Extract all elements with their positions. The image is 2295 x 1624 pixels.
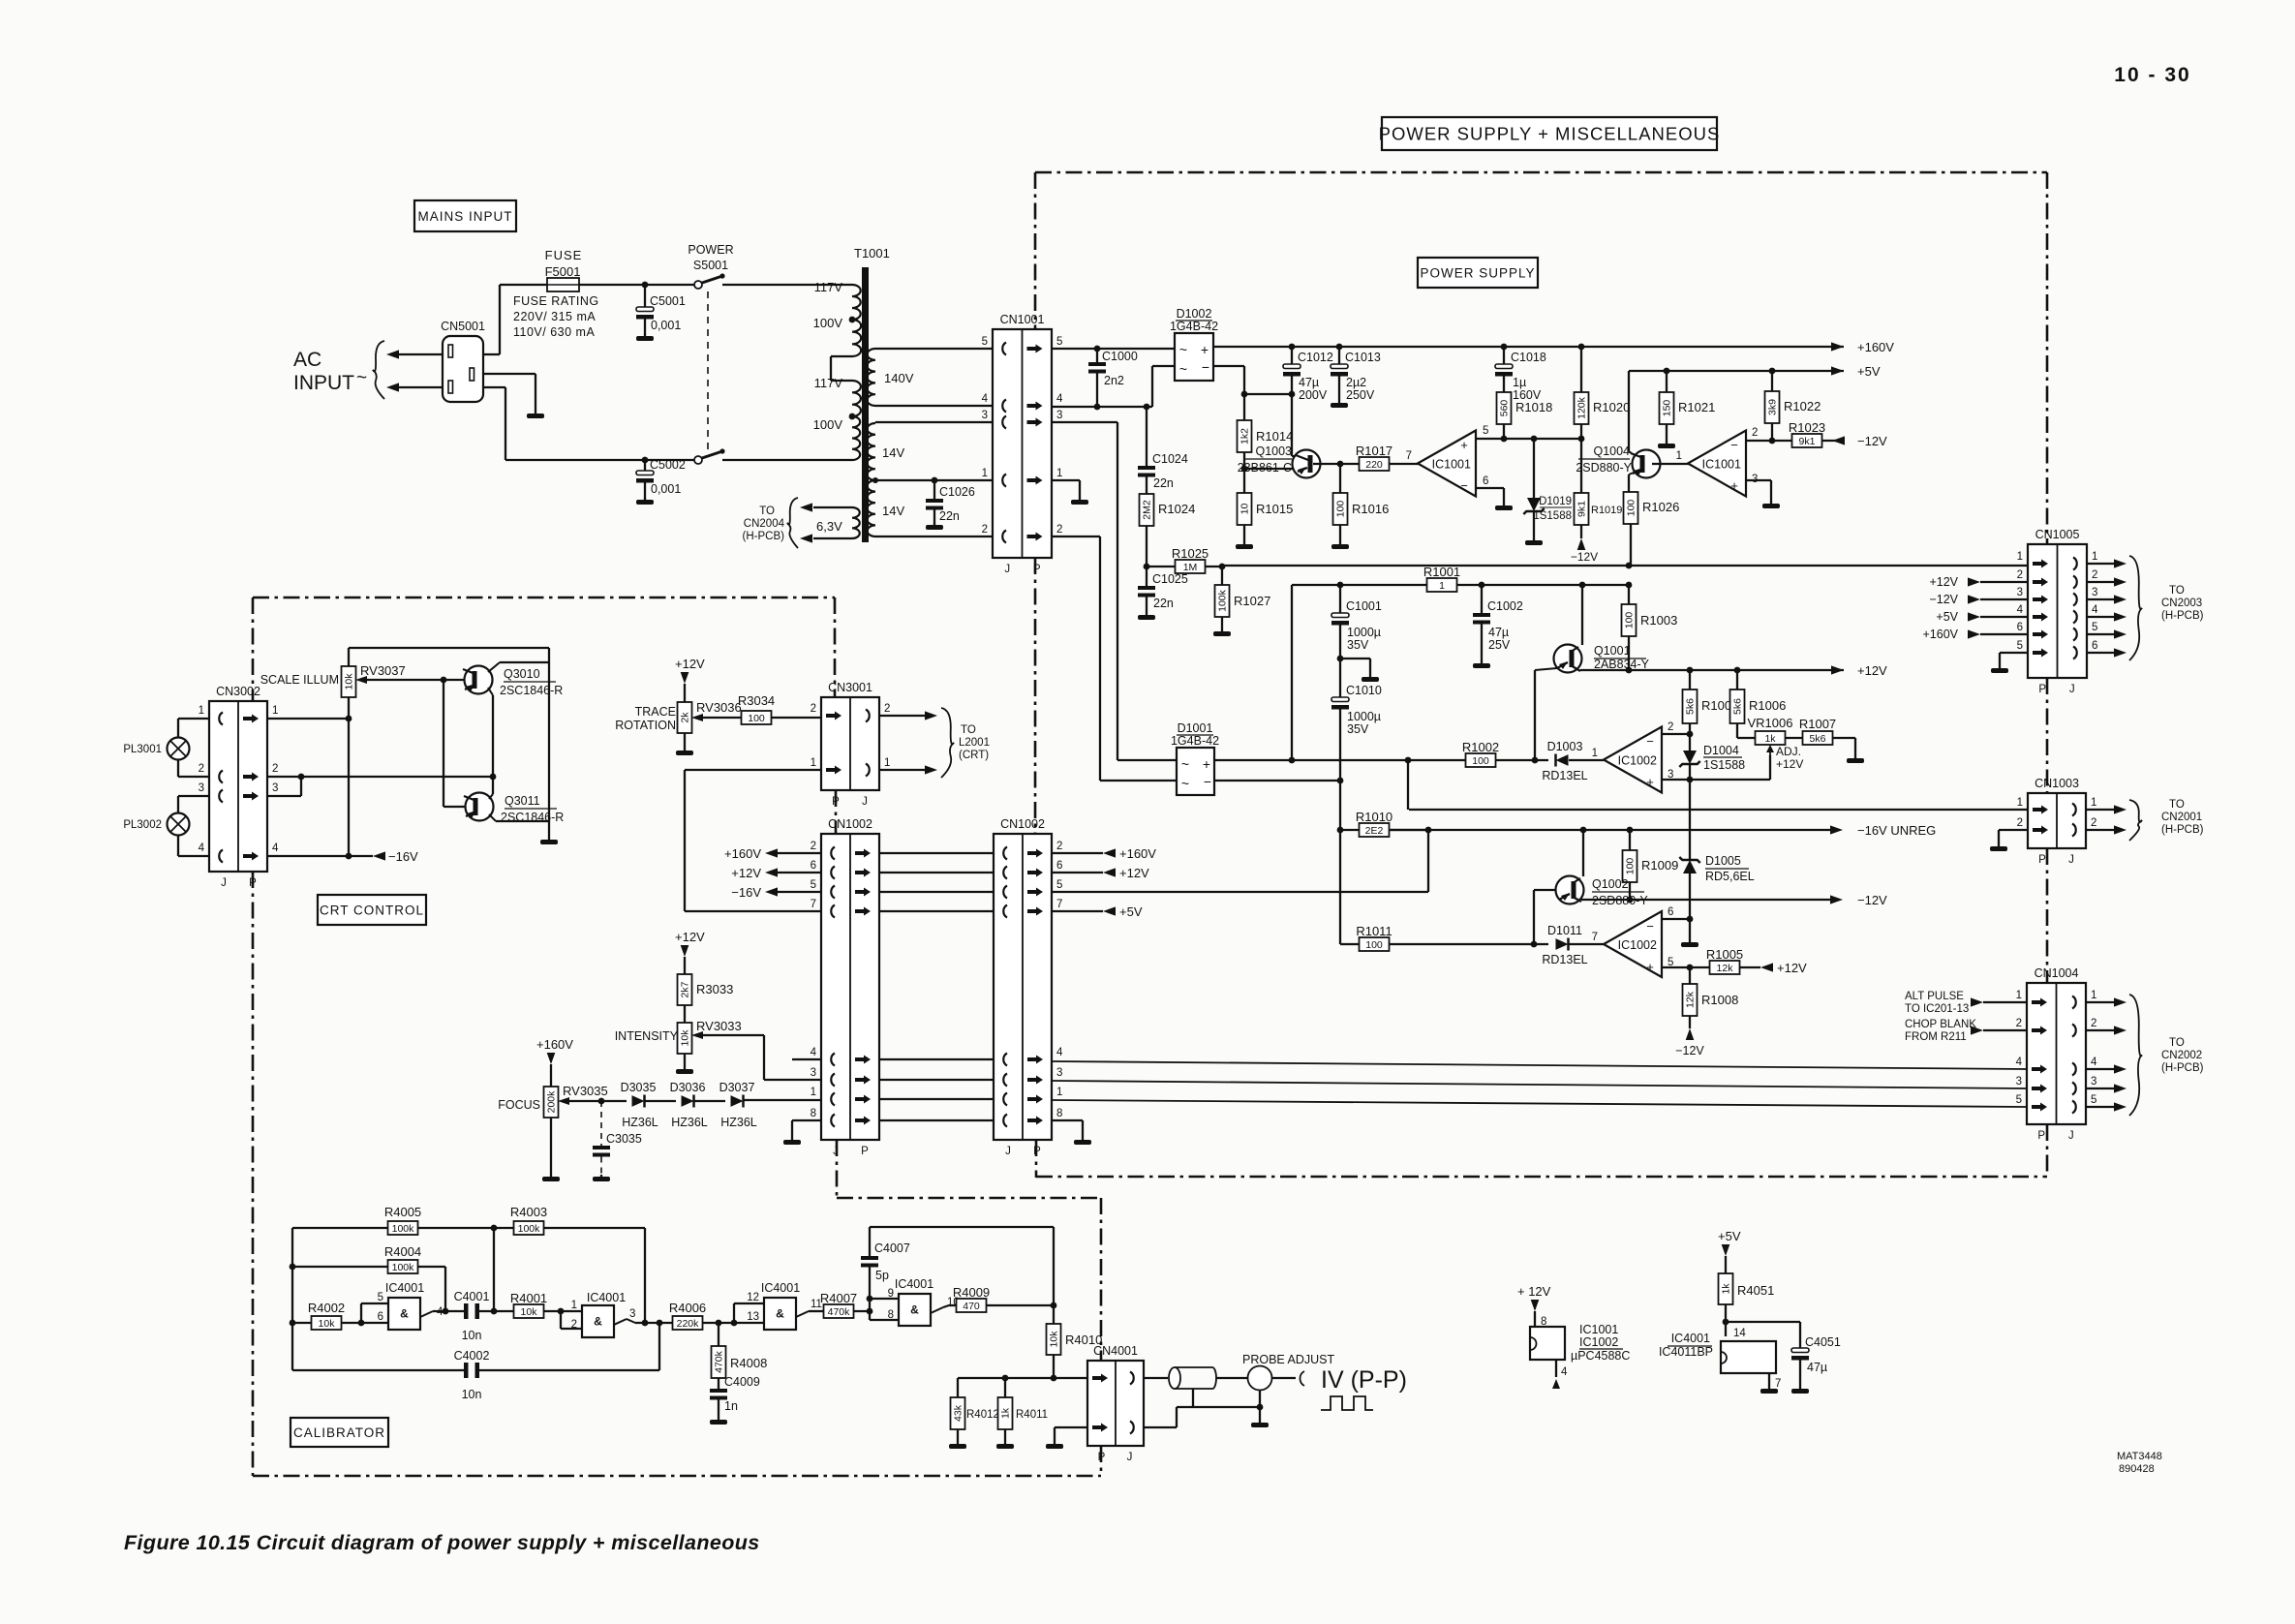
wire IC1001b output to Q1004 base bbox=[1652, 463, 1689, 465]
resistor R1025 bbox=[1147, 566, 1176, 567]
capacitor C1024 bbox=[1146, 407, 1147, 466]
svg-text:100: 100 bbox=[1626, 500, 1637, 517]
svg-text:5: 5 bbox=[2017, 640, 2023, 652]
diode D1011 bbox=[1556, 938, 1569, 950]
capacitor C4051 bbox=[1791, 1348, 1809, 1353]
wire Q3010 collector bbox=[488, 662, 500, 672]
svg-text:1S1588: 1S1588 bbox=[1533, 510, 1572, 522]
ground at R1007 bbox=[1847, 756, 1864, 763]
wires 6.3V to CN2004 bbox=[813, 506, 852, 508]
ground below CN5001 bbox=[527, 412, 544, 418]
svg-text:−16V UNREG: −16V UNREG bbox=[1857, 823, 1936, 838]
coax cable symbol bbox=[1169, 1367, 1180, 1389]
svg-text:POWER SUPPLY: POWER SUPPLY bbox=[1420, 265, 1535, 280]
svg-text:12k: 12k bbox=[1717, 963, 1734, 974]
svg-text:4: 4 bbox=[2017, 604, 2024, 616]
resistor R1016 bbox=[1339, 464, 1341, 493]
+160V rail bbox=[1213, 346, 1844, 348]
svg-text:110V/ 630 mA: 110V/ 630 mA bbox=[513, 325, 595, 339]
svg-text:1G4B-42: 1G4B-42 bbox=[1171, 734, 1219, 748]
wire CN3002 pin4 row bbox=[267, 855, 373, 857]
primary series link bbox=[831, 355, 852, 357]
connector CN1004 bbox=[2027, 983, 2086, 1124]
resistor R4004 bbox=[292, 1266, 388, 1268]
svg-text:R1027: R1027 bbox=[1234, 594, 1270, 608]
svg-text:RD13EL: RD13EL bbox=[1542, 769, 1587, 782]
wire CN3002 pin1 to RV3037 bbox=[267, 718, 349, 720]
supply arrow -12V below R1008 bbox=[1686, 1028, 1695, 1040]
wire gate3 output bbox=[809, 1310, 823, 1312]
switch S5001 upper contact bbox=[694, 281, 702, 289]
long wires CN1002 to CN1004 bbox=[1052, 1061, 2027, 1069]
wire CN1001 pin5 to D1002 bbox=[1052, 348, 1175, 350]
svg-text:10k: 10k bbox=[521, 1306, 538, 1318]
svg-text:7: 7 bbox=[811, 899, 816, 910]
wire 14V top to CN1001 pin3 bbox=[875, 421, 993, 423]
capacitor C4009 bbox=[710, 1389, 727, 1393]
svg-text:IC4001: IC4001 bbox=[1671, 1332, 1710, 1345]
svg-text:~: ~ bbox=[1181, 756, 1189, 772]
svg-text:C1018: C1018 bbox=[1511, 351, 1546, 364]
svg-text:−12V: −12V bbox=[1571, 550, 1598, 564]
svg-text:R1014: R1014 bbox=[1256, 429, 1293, 444]
wire loop A mid vertical bbox=[493, 1228, 495, 1311]
svg-text:3: 3 bbox=[1056, 410, 1062, 421]
svg-text:220: 220 bbox=[1365, 459, 1383, 471]
svg-text:3: 3 bbox=[199, 782, 204, 794]
wire CN4001 to probe jack bbox=[1144, 1377, 1168, 1379]
wire D1001 minus output bbox=[1214, 780, 1340, 781]
wire CN1003 pin2 ground bbox=[1999, 829, 2028, 831]
svg-text:S5001: S5001 bbox=[693, 259, 728, 272]
wire calibrator output row bbox=[958, 1377, 1087, 1379]
wires CN1005 to CN2003 bbox=[2087, 563, 2114, 565]
svg-text:5p: 5p bbox=[875, 1269, 889, 1282]
svg-text:J: J bbox=[833, 1146, 839, 1157]
svg-text:47µ: 47µ bbox=[1807, 1361, 1827, 1374]
svg-text:4: 4 bbox=[1056, 1047, 1063, 1058]
node R1027 top bbox=[1219, 564, 1226, 570]
ground below RV3033 bbox=[676, 1067, 693, 1074]
svg-text:−: − bbox=[1730, 438, 1738, 452]
resistor R3033 bbox=[678, 974, 692, 1005]
ground below R4011 bbox=[996, 1442, 1014, 1449]
wire CN5001 earth to ground bbox=[483, 373, 535, 375]
svg-text:22n: 22n bbox=[939, 509, 960, 523]
svg-text:2: 2 bbox=[1668, 721, 1673, 733]
svg-text:1k2: 1k2 bbox=[1239, 428, 1251, 444]
svg-text:Q1001: Q1001 bbox=[1594, 644, 1631, 658]
ground below C1025 bbox=[1138, 613, 1155, 620]
svg-text:F5001: F5001 bbox=[545, 264, 581, 279]
svg-text:+12V: +12V bbox=[1119, 866, 1149, 880]
svg-text:POWER: POWER bbox=[688, 243, 733, 257]
svg-text:CN1004: CN1004 bbox=[2035, 966, 2079, 980]
svg-text:4: 4 bbox=[811, 1047, 817, 1058]
svg-text:6: 6 bbox=[2017, 622, 2023, 633]
resistor R1010 bbox=[1337, 827, 1344, 834]
svg-text:3: 3 bbox=[2017, 587, 2023, 598]
svg-text:CRT CONTROL: CRT CONTROL bbox=[320, 903, 424, 917]
svg-text:1: 1 bbox=[1439, 580, 1445, 592]
ground below C4051 bbox=[1791, 1387, 1809, 1394]
+5V rail bbox=[1629, 370, 1844, 372]
capacitor C5002 bbox=[644, 460, 646, 471]
primary winding 117V lower bbox=[852, 381, 861, 416]
svg-text:13: 13 bbox=[747, 1311, 759, 1323]
svg-text:+: + bbox=[1730, 478, 1738, 493]
capacitor C1012 bbox=[1291, 347, 1293, 364]
secondary winding 14V lower bbox=[868, 480, 875, 536]
capacitor C3035 (dashed stray) bbox=[600, 1101, 602, 1146]
svg-text:CN2001: CN2001 bbox=[2161, 812, 2202, 823]
IC block uPC4588C bbox=[1530, 1327, 1565, 1360]
svg-text:4: 4 bbox=[982, 393, 989, 405]
wires PL3001 bbox=[177, 719, 179, 738]
svg-text:+12V: +12V bbox=[1857, 663, 1887, 678]
svg-text:+12V: +12V bbox=[1776, 757, 1803, 771]
svg-text:P: P bbox=[2038, 854, 2046, 866]
wiper wire RV3037 bbox=[355, 676, 367, 684]
svg-text:220k: 220k bbox=[677, 1318, 700, 1330]
svg-text:T1001: T1001 bbox=[854, 246, 890, 260]
fuse F5001 bbox=[500, 284, 547, 286]
primary winding 117V bbox=[852, 285, 861, 320]
svg-text:100V: 100V bbox=[813, 417, 843, 432]
svg-text:L2001: L2001 bbox=[959, 737, 990, 749]
node fuse-C5001 bbox=[642, 282, 649, 289]
resistor R1003 bbox=[1628, 585, 1630, 604]
wire CN3001 pin1 to CN1002 pin7 bbox=[685, 769, 821, 771]
svg-text:+: + bbox=[1460, 438, 1468, 452]
wire CN4001 pin2 ground bbox=[1055, 1426, 1087, 1428]
wire R1010 to rail bbox=[1427, 830, 1429, 892]
svg-text:TO: TO bbox=[961, 724, 976, 736]
svg-text:P: P bbox=[2037, 1130, 2045, 1142]
svg-text:R1024: R1024 bbox=[1158, 502, 1195, 516]
svg-text:100: 100 bbox=[748, 713, 765, 724]
svg-text:C1013: C1013 bbox=[1345, 351, 1381, 364]
svg-text:&: & bbox=[776, 1307, 784, 1321]
diode D1003 bbox=[1556, 754, 1569, 766]
svg-text:+: + bbox=[1646, 960, 1654, 974]
svg-text:R1016: R1016 bbox=[1352, 502, 1389, 516]
transistor Q3010 bbox=[444, 679, 465, 681]
svg-text:1: 1 bbox=[2016, 990, 2022, 1001]
capacitor C1002 bbox=[1481, 585, 1483, 613]
svg-text:FOCUS: FOCUS bbox=[498, 1098, 540, 1112]
svg-text:FUSE RATING: FUSE RATING bbox=[513, 294, 599, 308]
svg-text:4: 4 bbox=[272, 843, 279, 854]
wire gate1 output bbox=[433, 1310, 466, 1312]
svg-text:R1026: R1026 bbox=[1642, 500, 1679, 514]
wire gate3 pin12 loop bbox=[733, 1303, 735, 1323]
wire CN1005 pin5 ground bbox=[2000, 652, 2028, 654]
capacitor C1000 bbox=[1096, 349, 1098, 362]
svg-text:&: & bbox=[594, 1315, 602, 1329]
capacitor C4007 bbox=[869, 1227, 871, 1256]
svg-text:R1006: R1006 bbox=[1749, 698, 1786, 713]
svg-text:IV (P-P): IV (P-P) bbox=[1321, 1366, 1407, 1394]
ground below R1027 bbox=[1213, 629, 1231, 636]
svg-text:+160V: +160V bbox=[1119, 846, 1156, 861]
wire gate4 input loop bbox=[869, 1299, 871, 1320]
svg-text:6: 6 bbox=[1668, 906, 1673, 918]
svg-text:CN1002: CN1002 bbox=[828, 817, 872, 831]
resistor R1027 bbox=[1221, 567, 1223, 585]
diode D3035 bbox=[632, 1095, 645, 1107]
coax shield ground bbox=[1192, 1389, 1194, 1407]
wire rail y785 bbox=[1292, 759, 1466, 761]
svg-text:C4007: C4007 bbox=[874, 1241, 910, 1255]
svg-text:IC1002: IC1002 bbox=[1618, 754, 1657, 768]
svg-text:Figure 10.15 Circuit diagram o: Figure 10.15 Circuit diagram of power su… bbox=[124, 1531, 760, 1554]
svg-text:100V: 100V bbox=[813, 316, 843, 330]
ground Q3010/Q3011 bbox=[540, 838, 558, 844]
svg-text:CN2002: CN2002 bbox=[2161, 1050, 2202, 1061]
svg-text:CN4001: CN4001 bbox=[1093, 1344, 1138, 1358]
transistor Q1004 bbox=[1633, 450, 1661, 478]
ground CN1001 pin1 bbox=[1071, 498, 1088, 505]
svg-text:TO: TO bbox=[2169, 799, 2185, 811]
diode D3036 bbox=[682, 1095, 694, 1107]
svg-text:4: 4 bbox=[1561, 1366, 1568, 1378]
svg-text:4: 4 bbox=[2016, 1057, 2023, 1068]
capacitor C1026 bbox=[933, 480, 935, 499]
rail -16V unreg bbox=[1389, 829, 1830, 831]
svg-text:C4001: C4001 bbox=[454, 1290, 490, 1303]
wire CN1002 left pin8 ground bbox=[792, 1119, 821, 1121]
svg-text:14: 14 bbox=[1733, 1328, 1746, 1339]
wires CN1004 to CN2002 bbox=[2086, 1001, 2114, 1003]
svg-text:ADJ.: ADJ. bbox=[1776, 745, 1801, 758]
svg-text:22n: 22n bbox=[1153, 476, 1174, 490]
title box POWER SUPPLY + MISCELLANEOUS bbox=[1382, 117, 1717, 150]
svg-text:0,001: 0,001 bbox=[651, 482, 681, 496]
svg-text:−16V: −16V bbox=[388, 849, 418, 864]
wire Q1004 collector bbox=[1628, 371, 1630, 451]
svg-text:RV3035: RV3035 bbox=[563, 1084, 608, 1098]
svg-text:+160V: +160V bbox=[1923, 628, 1959, 641]
wire D1001 plus output bbox=[1214, 759, 1292, 761]
svg-text:IC1001: IC1001 bbox=[1432, 458, 1471, 472]
svg-text:1: 1 bbox=[2017, 551, 2023, 563]
svg-text:CALIBRATOR: CALIBRATOR bbox=[293, 1425, 385, 1440]
svg-text:5: 5 bbox=[2091, 1094, 2096, 1106]
svg-text:100: 100 bbox=[1624, 612, 1636, 629]
svg-text:TO: TO bbox=[759, 506, 775, 517]
svg-text:5k6: 5k6 bbox=[1810, 733, 1826, 745]
svg-text:D1002: D1002 bbox=[1177, 307, 1212, 321]
svg-text:1: 1 bbox=[571, 1300, 577, 1311]
svg-text:35V: 35V bbox=[1347, 722, 1369, 736]
svg-text:2SC1846-R: 2SC1846-R bbox=[500, 684, 563, 697]
rail to CN1005 pin1 bbox=[1222, 565, 2028, 567]
capacitor C1010 bbox=[1339, 659, 1341, 697]
svg-text:+160V: +160V bbox=[1857, 340, 1894, 354]
resistor R1019 bbox=[1580, 439, 1582, 493]
wire C1010 chain down bbox=[1339, 781, 1341, 830]
svg-text:J: J bbox=[2069, 684, 2075, 695]
svg-text:POWER SUPPLY + MISCELLANEOUS: POWER SUPPLY + MISCELLANEOUS bbox=[1379, 124, 1721, 144]
svg-text:Q1003: Q1003 bbox=[1255, 444, 1292, 458]
probe adjust jack bbox=[1248, 1366, 1272, 1391]
svg-text:140V: 140V bbox=[884, 371, 914, 385]
svg-text:2: 2 bbox=[571, 1319, 577, 1331]
node lower line C5002 bbox=[642, 457, 649, 464]
ground below C4009 bbox=[710, 1418, 727, 1425]
svg-text:14V: 14V bbox=[882, 445, 904, 460]
resistor R4002 bbox=[292, 1322, 313, 1324]
rail from CN1002 pin5 bbox=[1052, 891, 1428, 893]
rail to CN1003 pin1 bbox=[1409, 809, 2028, 811]
svg-text:+ 12V: + 12V bbox=[1517, 1284, 1551, 1299]
svg-text:8: 8 bbox=[1056, 1108, 1062, 1119]
svg-text:10 - 30: 10 - 30 bbox=[2114, 64, 2190, 86]
ground below RV3035 bbox=[542, 1175, 560, 1181]
svg-text:J: J bbox=[1127, 1452, 1133, 1463]
svg-text:8: 8 bbox=[888, 1309, 894, 1321]
svg-text:RV3037: RV3037 bbox=[360, 663, 406, 678]
svg-text:+: + bbox=[1203, 756, 1210, 772]
wires CN3001 to L2001 bbox=[879, 715, 925, 717]
svg-text:4: 4 bbox=[2091, 1057, 2097, 1068]
svg-text:0,001: 0,001 bbox=[651, 319, 681, 332]
svg-text:47µ: 47µ bbox=[1299, 376, 1319, 389]
svg-text:Q3011: Q3011 bbox=[505, 794, 540, 808]
svg-text:R4008: R4008 bbox=[730, 1356, 767, 1370]
svg-text:1: 1 bbox=[1592, 748, 1598, 759]
svg-text:C5001: C5001 bbox=[650, 294, 686, 308]
svg-text:5: 5 bbox=[982, 336, 988, 348]
svg-text:2: 2 bbox=[2017, 569, 2023, 581]
svg-text:~: ~ bbox=[1181, 776, 1189, 791]
svg-text:R4001: R4001 bbox=[510, 1291, 547, 1305]
svg-text:7: 7 bbox=[1056, 899, 1062, 910]
svg-text:1: 1 bbox=[1056, 468, 1062, 479]
power supply module border (dash-dot) bbox=[1035, 171, 2047, 174]
resistor R4051 bbox=[1719, 1273, 1733, 1304]
svg-text:P: P bbox=[249, 877, 257, 889]
primary winding 100V lower bbox=[852, 416, 860, 460]
ground below R1016 bbox=[1331, 542, 1349, 549]
svg-text:R1025: R1025 bbox=[1172, 546, 1209, 561]
svg-text:+12V: +12V bbox=[1777, 961, 1807, 975]
svg-text:2: 2 bbox=[2016, 1018, 2022, 1029]
svg-text:IC4011BP: IC4011BP bbox=[1659, 1345, 1713, 1359]
svg-text:100k: 100k bbox=[1217, 589, 1229, 612]
ground below R1015 bbox=[1236, 542, 1253, 549]
connector CN1005 bbox=[2028, 544, 2087, 678]
label box POWER SUPPLY bbox=[1418, 258, 1538, 288]
svg-text:2k7: 2k7 bbox=[680, 981, 691, 997]
svg-text:200V: 200V bbox=[1299, 388, 1328, 402]
connector CN1002 right bbox=[994, 834, 1052, 1140]
svg-text:−12V: −12V bbox=[1675, 1044, 1704, 1057]
wire 14V centre tap to CN1001 pin1 bbox=[875, 479, 993, 481]
wire junction down to CN1003 rail bbox=[1407, 760, 1409, 810]
wires between CN1002 connectors bbox=[879, 852, 994, 854]
svg-text:R1017: R1017 bbox=[1356, 444, 1392, 458]
svg-text:2SD880-Y: 2SD880-Y bbox=[1576, 461, 1632, 475]
svg-text:43k: 43k bbox=[953, 1404, 964, 1422]
svg-text:3: 3 bbox=[629, 1308, 635, 1320]
wire CN5001 bottom to lower mains line bbox=[483, 386, 505, 388]
svg-text:C1026: C1026 bbox=[939, 485, 975, 499]
svg-text:IC4001: IC4001 bbox=[587, 1291, 626, 1304]
winding 6.3V bbox=[852, 507, 860, 538]
svg-text:+12V: +12V bbox=[675, 657, 705, 671]
svg-text:D1005: D1005 bbox=[1705, 854, 1741, 868]
CRT control / calibrator module border (dash-dot) bbox=[253, 597, 835, 599]
capacitor C1013 bbox=[1338, 347, 1340, 364]
svg-text:2: 2 bbox=[1056, 841, 1062, 852]
ground below R4012 bbox=[949, 1442, 966, 1449]
wire RV3033 to CN1002 pin3 bbox=[764, 1079, 821, 1081]
svg-text:1: 1 bbox=[199, 705, 204, 717]
svg-text:9: 9 bbox=[888, 1288, 894, 1300]
svg-text:1000µ: 1000µ bbox=[1347, 626, 1381, 639]
wire RV3037 top loop bbox=[349, 647, 549, 649]
svg-text:100: 100 bbox=[1365, 939, 1383, 951]
svg-text:RV3033: RV3033 bbox=[696, 1019, 742, 1033]
svg-text:R1019: R1019 bbox=[1591, 505, 1622, 516]
svg-text:4: 4 bbox=[1056, 393, 1063, 405]
svg-text:CN1001: CN1001 bbox=[1000, 313, 1045, 326]
ground below D1005 chain bbox=[1681, 940, 1698, 947]
wire CN1002 left pin4 stub bbox=[792, 1058, 821, 1060]
wire CN1002 right pin8 ground bbox=[1052, 1119, 1083, 1121]
svg-text:FUSE: FUSE bbox=[545, 248, 583, 262]
svg-text:6: 6 bbox=[2092, 640, 2097, 652]
ground below C1026 bbox=[926, 523, 943, 530]
svg-text:D1019: D1019 bbox=[1539, 496, 1572, 507]
svg-text:C1001: C1001 bbox=[1346, 599, 1382, 613]
supply labels right CN1002 bbox=[1052, 852, 1103, 854]
wire CN4001 pin2 to shield bbox=[1144, 1426, 1177, 1428]
svg-text:R4051: R4051 bbox=[1737, 1283, 1774, 1298]
transistor Q3011 bbox=[444, 806, 466, 808]
svg-text:(H-PCB): (H-PCB) bbox=[2161, 824, 2204, 836]
svg-text:AC: AC bbox=[293, 349, 321, 371]
svg-text:C1025: C1025 bbox=[1152, 572, 1188, 586]
svg-text:C5002: C5002 bbox=[650, 458, 686, 472]
ground hook C1001 bbox=[1337, 656, 1344, 662]
svg-text:(CRT): (CRT) bbox=[959, 750, 989, 761]
svg-text:CN2004: CN2004 bbox=[744, 518, 785, 530]
svg-text:&: & bbox=[910, 1303, 919, 1317]
svg-text:890428: 890428 bbox=[2119, 1463, 2155, 1475]
connector CN5001 bbox=[443, 336, 483, 402]
svg-text:IC1002: IC1002 bbox=[1618, 938, 1657, 952]
svg-text:D3036: D3036 bbox=[670, 1081, 706, 1094]
svg-text:CN1002: CN1002 bbox=[1000, 817, 1045, 831]
capacitor C1018 bbox=[1503, 347, 1505, 364]
svg-text:3: 3 bbox=[2016, 1076, 2022, 1088]
svg-text:8: 8 bbox=[811, 1108, 816, 1119]
switch S5001 lower contact bbox=[694, 456, 702, 464]
-12V rail from Q1002 bbox=[1581, 899, 1830, 901]
svg-text:R4004: R4004 bbox=[384, 1244, 421, 1259]
svg-text:6: 6 bbox=[378, 1311, 383, 1323]
svg-text:1k: 1k bbox=[1764, 733, 1776, 745]
wire CN5001 to fuse bbox=[483, 353, 500, 355]
AC input brace bbox=[373, 341, 384, 399]
svg-text:CN1005: CN1005 bbox=[2035, 528, 2080, 541]
svg-text:22n: 22n bbox=[1153, 597, 1174, 610]
svg-text:25V: 25V bbox=[1488, 638, 1511, 652]
resistor R1004 bbox=[1689, 670, 1691, 689]
